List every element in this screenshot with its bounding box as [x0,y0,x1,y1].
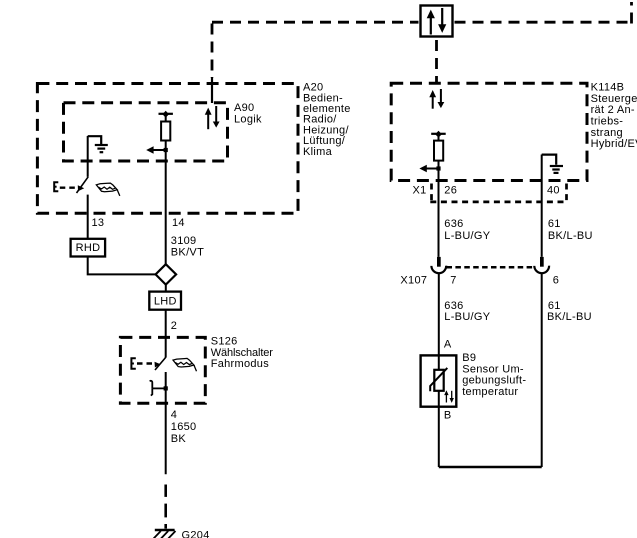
label A90 Logik [234,102,262,125]
wire 636 from X107 to B9 pin A [438,274,440,369]
svg-text:3109: 3109 [171,235,197,247]
wire pin 4 below S126 [165,404,167,475]
label wire 636 L-BU/GY (lower) [444,300,490,323]
resistor inside A90 on pin14 branch [159,111,173,150]
svg-text:G204: G204 [182,529,210,538]
label B9 Sensor Umgebungslufttemperatur [462,352,526,398]
box LHD [149,292,181,310]
svg-text:BK/VT: BK/VT [171,246,204,258]
label K114B Steuergerät 2 Antriebsstrang Hybrid/EV [591,82,637,151]
svg-text:6: 6 [553,274,559,286]
wire below S126 blade [165,372,167,404]
svg-text:rät 2 An-: rät 2 An- [591,104,635,116]
connector X107 right terminal (pin 6) [534,257,549,273]
box RHD [71,239,106,257]
svg-text:Wählschalter: Wählschalter [211,347,274,359]
box S126 (dashed) [120,337,205,403]
ground symbol inside A20 [88,136,108,152]
svg-text:LHD: LHD [154,295,177,307]
small up/down arrows in B9 [444,390,454,403]
wire LHD to S126 pin 2 [165,310,167,358]
label A20 Bedienelemente Radio/Heizung/Lüftung/Klima [303,82,351,158]
svg-text:40: 40 [547,184,560,196]
svg-text:RHD: RHD [76,242,101,254]
box B9 sensor [421,355,457,406]
wire from resistor to X1 pin 26 [438,169,440,257]
switch actuator bracket E [54,182,58,191]
detent hook symbol in S126 [150,381,166,396]
wire through B9 [438,355,440,467]
switch actuator bracket E (S126) [131,358,135,369]
svg-text:strang: strang [591,127,623,139]
svg-text:1650: 1650 [171,421,197,433]
wire from RHD to diamond junction [88,257,156,275]
svg-text:Fahrmodus: Fahrmodus [211,358,270,370]
svg-text:BK: BK [171,433,187,445]
connector X1 row (dotted box) [430,184,567,202]
label S126 Wählschalter Fahrmodus [211,336,274,371]
svg-text:26: 26 [444,184,457,196]
ground G204 symbol [154,530,176,538]
leaf actuation icon (A20 switch) [96,183,120,196]
wire pin14 from resistor down to diamond [165,150,167,265]
svg-text:Sensor Um-: Sensor Um- [462,363,524,375]
wire: dashed run to G204 [164,485,167,529]
svg-text:S126: S126 [211,336,238,348]
up/down arrows at K114B entry [429,89,444,109]
box A20 (dashed) [37,84,298,214]
label wire 636 L-BU/GY (upper) [444,218,490,242]
svg-text:7: 7 [450,274,456,286]
thermistor symbol in B9 [430,368,447,391]
switch actuator dashed link with arrowhead (S126) [137,362,153,364]
box K114B (dashed) [391,83,587,180]
svg-text:Klima: Klima [303,146,333,158]
connector X107 left terminal (pin 7) [431,257,446,273]
wire diamond to LHD [165,285,167,292]
resistor inside K114B [431,131,446,169]
switch contact in S126 (blade) [155,357,166,370]
svg-text:61: 61 [548,218,561,230]
svg-text:L-BU/GY: L-BU/GY [444,230,490,242]
svg-text:A: A [444,338,452,350]
left arrow tap in K114B [419,165,440,172]
svg-text:X107: X107 [400,274,427,286]
svg-text:Hybrid/EV: Hybrid/EV [591,138,637,150]
box A90 Logik (dashed) [64,103,228,161]
wire bottom link from B9 pin B to wire 61 [439,466,542,469]
svg-text:X1: X1 [413,184,427,196]
wire: dashed drop from coupler to K114B [435,40,438,83]
wire from ground to switch S (pin 13 branch) [87,136,89,177]
ground symbol inside K114B [542,155,563,173]
top inline coupler box with up/down arrows [421,6,453,37]
wire from ground to X1 pin 40 [541,155,543,257]
label wire 61 BK/L-BU (upper) [548,218,593,242]
svg-text:L-BU/GY: L-BU/GY [444,311,490,323]
svg-text:2: 2 [171,320,177,332]
svg-text:A90: A90 [234,102,254,114]
label wire 1650 BK [171,421,197,445]
wire: top dashed interconnect from A20 to coupler and to top-right exit [212,2,632,103]
wire below switch to pin 13 / RHD [87,195,89,239]
svg-text:4: 4 [171,409,177,421]
svg-text:temperatur: temperatur [462,386,518,398]
svg-text:gebungsluft-: gebungsluft- [462,375,526,387]
svg-text:B: B [444,409,452,421]
svg-text:BK/L-BU: BK/L-BU [548,230,593,242]
svg-text:636: 636 [444,218,463,230]
diamond junction [156,264,177,284]
svg-text:K114B: K114B [591,82,625,94]
wire 61 from X107 down to bottom link [541,274,543,467]
label wire 61 BK/L-BU (lower) [547,300,592,323]
svg-text:Steuerge-: Steuerge- [591,93,637,105]
svg-text:B9: B9 [462,352,476,364]
label wire 3109 BK/VT [171,235,204,258]
svg-text:BK/L-BU: BK/L-BU [547,311,592,323]
switch actuator dashed link with arrowhead [60,186,76,188]
svg-text:triebs-: triebs- [591,116,624,128]
svg-text:Logik: Logik [234,114,262,126]
up/down arrows at A90 entry [205,106,220,129]
leaf actuation icon (S126 switch) [173,358,197,371]
dotted link of X107 [447,266,534,269]
svg-text:14: 14 [172,217,185,229]
switch contact in A20 (blade) [77,177,89,193]
svg-text:13: 13 [92,217,105,229]
left arrow tap in A90 [146,146,168,153]
